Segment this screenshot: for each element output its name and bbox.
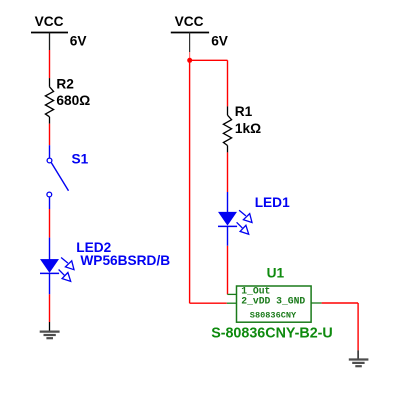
wire LED2 to ground [49, 294, 51, 322]
svg-text:VCC: VCC [175, 14, 204, 29]
svg-text:6V: 6V [211, 33, 229, 48]
switch S1 [47, 145, 69, 209]
wire R1 to LED1 [227, 152, 229, 192]
svg-text:R2: R2 [56, 76, 74, 91]
wire junction to R1 branch [190, 60, 228, 106]
ground (right) [349, 350, 369, 366]
svg-text:S1: S1 [72, 152, 89, 167]
svg-text:S-80836CNY-B2-U: S-80836CNY-B2-U [211, 326, 333, 342]
wire VCC stub to junction (right) [189, 52, 191, 60]
LED LED2 [40, 238, 74, 295]
wire LED1 to U1 pin 1 [227, 246, 229, 295]
svg-text:680Ω: 680Ω [56, 93, 90, 108]
svg-text:LED1: LED1 [255, 195, 290, 210]
junction dot at VCC node [187, 58, 192, 63]
wire R2 to S1 [49, 124, 51, 146]
power VCC (right) [171, 33, 209, 53]
resistor R2 [45, 78, 53, 124]
wire VCC to R2 (left) [49, 50, 51, 78]
svg-text:R1: R1 [235, 104, 253, 119]
svg-text:6V: 6V [70, 33, 88, 48]
svg-text:VCC: VCC [35, 14, 64, 29]
svg-text:2_vDD 3_GND: 2_vDD 3_GND [241, 296, 305, 307]
wire VCC junction to U1 pin 2 [190, 60, 227, 303]
svg-text:U1: U1 [267, 266, 285, 281]
wire S1 to LED2 [49, 209, 51, 238]
ground (left) [40, 322, 60, 338]
IC U1 body [227, 286, 322, 322]
power VCC (left) [31, 33, 68, 51]
svg-text:1kΩ: 1kΩ [235, 121, 261, 136]
svg-text:WP56BSRD/B: WP56BSRD/B [80, 253, 170, 268]
resistor R1 [223, 106, 231, 152]
wire U1 pin 3 to ground [322, 303, 359, 350]
svg-text:S80836CNY: S80836CNY [250, 310, 297, 320]
LED LED1 [218, 192, 252, 246]
